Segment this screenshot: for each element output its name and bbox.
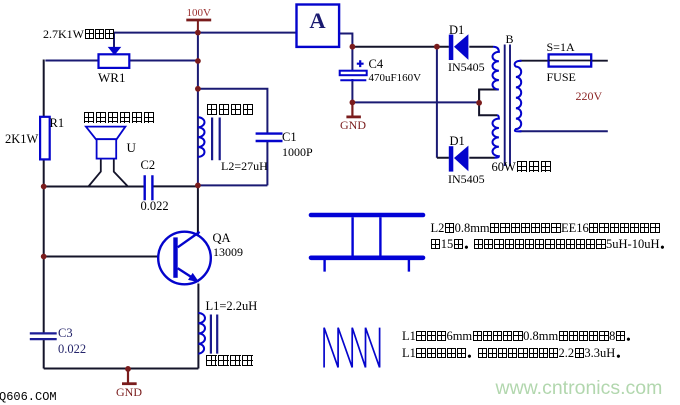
transformer B secondary winding [515, 61, 522, 132]
wire WR1 right lead [129, 60, 197, 62]
wire base lead [44, 256, 174, 258]
wire middle bus to center tap [352, 101, 479, 103]
label D1 bottom [450, 135, 465, 148]
wire center tap steps [479, 90, 498, 116]
wire top bus from WR1 wiper to ammeter [114, 32, 297, 34]
diode D1 top [449, 34, 469, 60]
label L1 value [206, 300, 258, 313]
label WR1 [98, 71, 125, 84]
label L2 air coil [206, 104, 254, 116]
label C4 value [369, 73, 422, 84]
label C3 value [58, 343, 86, 356]
label C3 [58, 327, 73, 340]
wire transducer leg right [114, 159, 128, 187]
wire ammeter output to C4 node [339, 34, 353, 47]
ground under C4 [346, 102, 361, 117]
label transducer title [83, 112, 155, 125]
capacitor C1 [256, 134, 283, 141]
capacitor C4 polarized [340, 60, 367, 80]
label C1 [282, 131, 297, 144]
wire node to diode D1 top [352, 46, 449, 48]
ground bottom [122, 369, 137, 384]
label U [127, 141, 136, 154]
wire WR1 wiper stub [113, 33, 115, 48]
label R1 value 2K1W [5, 133, 38, 146]
watermark cntronics [496, 379, 663, 399]
note L2 winding paragraph [431, 220, 670, 253]
label IN5405 top [448, 61, 485, 73]
wire bottom diode segments [437, 157, 495, 159]
transistor Q1 QA 13009 [158, 232, 211, 285]
wire emitter lead and L1 axis [197, 284, 199, 369]
label D1 top [449, 24, 464, 37]
label FUSE [547, 71, 576, 83]
wire C2 to collector node [154, 185, 198, 187]
wire transducer leg left [88, 159, 100, 187]
label C2 value [141, 200, 169, 213]
wire left rail [43, 60, 45, 369]
transformer B primary top winding [493, 47, 499, 90]
label L1 air coil [206, 355, 254, 367]
node 220V label [576, 90, 603, 102]
note L1 winding paragraph [402, 328, 636, 363]
wire secondary top through fuse [520, 60, 608, 62]
capacitor C2 [145, 175, 153, 200]
wire bottom rail [44, 368, 199, 370]
wire WR1 left lead [45, 60, 98, 62]
wire vertical branch to bottom diode [436, 47, 438, 158]
inductor L2 core lines [212, 118, 220, 161]
label potentiometer title [43, 28, 115, 40]
label L2 value [221, 160, 268, 172]
L1 air coil zigzag sketch [324, 328, 380, 368]
ammeter U-A box [297, 5, 340, 47]
capacitor C3 [30, 333, 57, 339]
resistor R1 [40, 117, 50, 160]
node 100V label [187, 8, 211, 19]
wire secondary bottom [520, 130, 608, 132]
wire C4 branch [351, 47, 353, 103]
wire L2 C1 tank frame [198, 89, 268, 186]
transformer B core [505, 45, 510, 167]
label B [506, 33, 514, 45]
inductor L1 coil [198, 313, 205, 354]
wire main vertical rail [197, 33, 199, 187]
label QA [213, 232, 231, 245]
diode D1 bottom [449, 146, 469, 172]
label IN5405 bottom [448, 173, 485, 185]
transducer U [86, 127, 126, 159]
ammeter letter A [297, 10, 339, 33]
label C4 [369, 58, 384, 71]
label C2 [141, 159, 156, 172]
EE16 bobbin sketch tube walls [353, 217, 381, 255]
label S=1A [547, 41, 575, 53]
potentiometer WR1 [99, 47, 130, 68]
label C1 value [282, 146, 313, 158]
EE16 bobbin sketch top flange [311, 213, 423, 218]
label transformer 60W [492, 161, 552, 174]
watermark Q606.COM [0, 391, 57, 403]
EE16 bobbin sketch bottom flange [311, 255, 423, 260]
inductor L1 core lines [211, 315, 217, 354]
ground label C4 [340, 119, 366, 131]
wire collector lead [197, 186, 199, 235]
fuse S=1A [549, 54, 592, 66]
transformer B primary bottom winding [493, 115, 499, 158]
wire transducer row left [44, 186, 144, 188]
power 100V symbol [186, 20, 211, 33]
label 13009 [213, 246, 243, 258]
ground label bottom [116, 386, 142, 398]
EE16 bobbin sketch pins [325, 260, 409, 272]
wire diode D1 top to primary coil [469, 46, 493, 48]
inductor L2 coil [198, 117, 205, 157]
label R1 [50, 117, 65, 130]
